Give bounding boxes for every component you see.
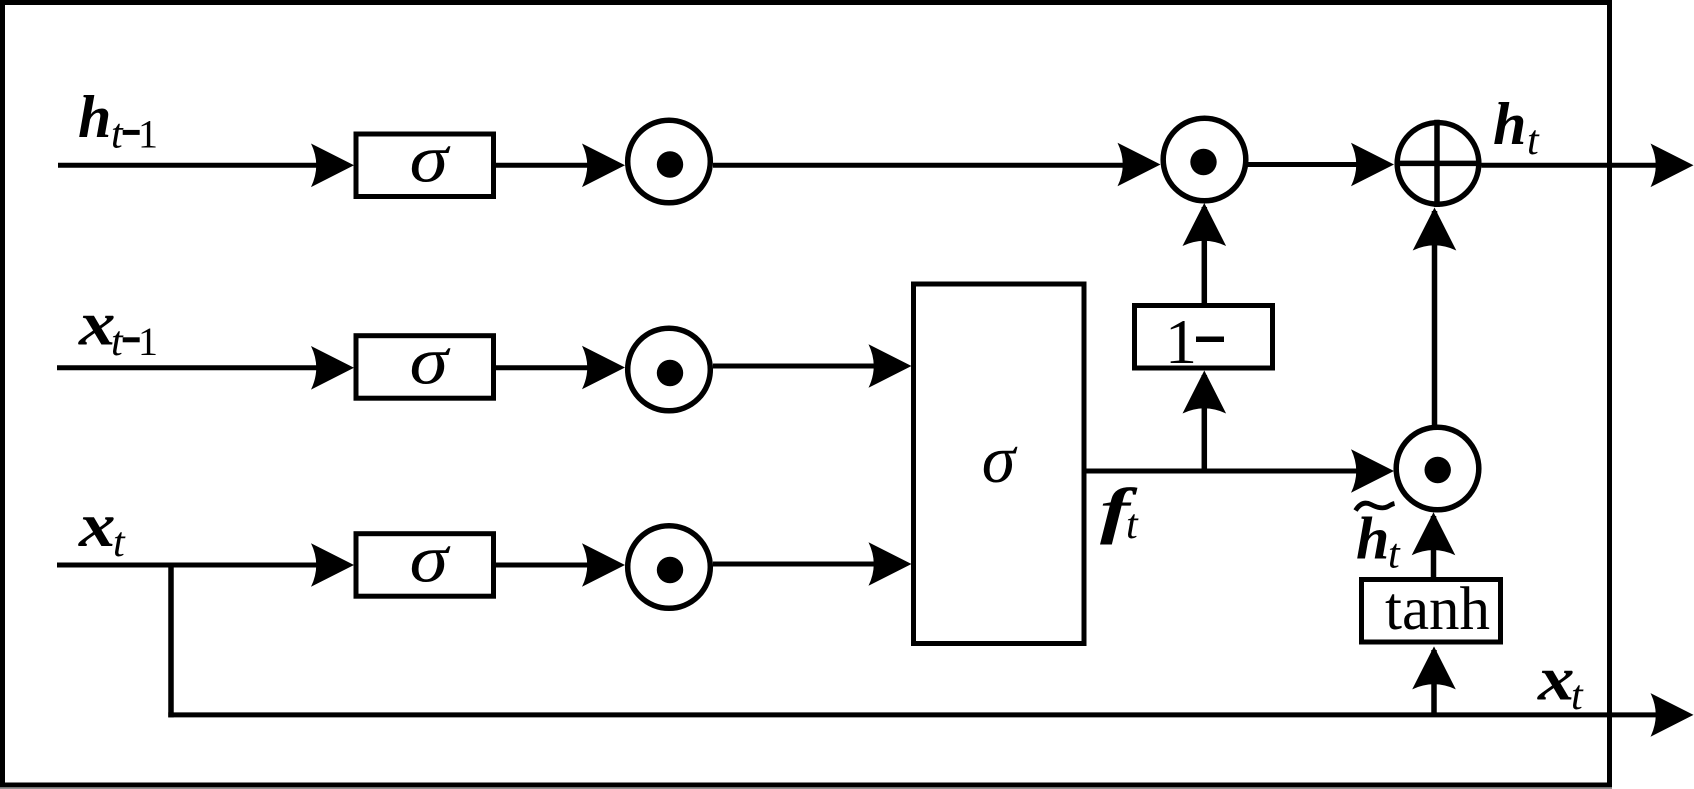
node h_{t-1} label bbox=[78, 84, 158, 158]
wire f_t from U1 to M5 bbox=[1084, 469, 1374, 474]
wire tanh box up to M5 bbox=[1431, 516, 1437, 580]
arrowhead into sigma box S3 bbox=[311, 543, 354, 587]
svg-text:x: x bbox=[78, 492, 116, 560]
svg-text:σ: σ bbox=[410, 323, 451, 399]
arrowhead into 1-minus box bottom bbox=[1183, 371, 1227, 414]
svg-text:t: t bbox=[1388, 532, 1401, 578]
arrowhead into tanh bottom bbox=[1412, 646, 1456, 689]
arrowhead output h_t bbox=[1651, 144, 1694, 188]
wire M1 to M2 bbox=[713, 163, 1140, 168]
multiply node M3 bbox=[628, 328, 711, 411]
wire row2 input bbox=[57, 365, 330, 370]
node x_t label bbox=[78, 492, 126, 566]
arrowhead into add node A1 bbox=[1351, 143, 1394, 187]
gate box S2 sigma bbox=[356, 336, 494, 399]
svg-text:t: t bbox=[1126, 502, 1139, 548]
arrowhead into multiply node M4 bbox=[582, 543, 625, 587]
multiply node M1 bbox=[628, 120, 711, 203]
svg-text:1: 1 bbox=[138, 319, 158, 364]
gate box S3 sigma bbox=[356, 534, 494, 597]
add node A1 circle-plus bbox=[1395, 120, 1482, 207]
wire row3 input bbox=[57, 563, 330, 568]
wire S2 to M3 bbox=[494, 365, 606, 370]
svg-text:x: x bbox=[1537, 645, 1575, 713]
svg-text:t: t bbox=[111, 112, 124, 158]
multiply node M5 bbox=[1396, 427, 1479, 510]
svg-text:t: t bbox=[1527, 118, 1540, 164]
wire A1 to right output bbox=[1482, 163, 1674, 168]
multiply node M2 bbox=[1163, 118, 1246, 201]
arrowhead into big sigma box row2 bbox=[869, 344, 912, 388]
wire M3 to big sigma box bbox=[713, 364, 891, 369]
gate box 1-minus bbox=[1135, 306, 1273, 369]
wire junction up to 1-minus box bbox=[1202, 375, 1208, 471]
svg-text:σ: σ bbox=[982, 421, 1018, 497]
wire 1-minus box up to M2 bbox=[1202, 207, 1208, 303]
node f_t label bbox=[1100, 477, 1139, 548]
gate box tanh bbox=[1362, 580, 1501, 643]
tilde accent bbox=[1356, 503, 1395, 510]
gate box S1 sigma bbox=[356, 134, 494, 197]
svg-text:1: 1 bbox=[1165, 306, 1197, 377]
svg-text:x: x bbox=[78, 291, 116, 359]
arrowhead into M5 bottom bbox=[1412, 512, 1456, 555]
wire bottom x_t up to tanh box bbox=[1431, 650, 1437, 715]
arrowhead into M2 bottom bbox=[1183, 203, 1227, 246]
scan-edge gray strip at page bottom bbox=[0, 788, 1612, 789]
arrowhead into multiply node M1 bbox=[582, 144, 625, 188]
arrowhead into A1 bottom bbox=[1413, 208, 1457, 251]
gate box U1 big sigma bbox=[914, 284, 1085, 644]
node h_t label bbox=[1493, 91, 1540, 164]
node x_t bottom label bbox=[1537, 645, 1584, 719]
arrowhead into sigma box S2 bbox=[311, 346, 354, 390]
arrowhead into sigma box S1 bbox=[311, 144, 354, 188]
svg-text:h: h bbox=[78, 84, 111, 150]
wire S1 to M1 bbox=[494, 163, 606, 168]
svg-text:σ: σ bbox=[410, 521, 451, 597]
svg-text:t: t bbox=[1571, 673, 1584, 719]
svg-text:t: t bbox=[113, 520, 126, 566]
svg-text:t: t bbox=[111, 319, 124, 365]
arrowhead output x_t right bbox=[1651, 693, 1694, 737]
arrowhead into multiply node M3 bbox=[582, 346, 625, 390]
wire row1 input bbox=[58, 163, 330, 168]
wire branch x_t down bbox=[168, 563, 174, 718]
wire M4 to big sigma box bbox=[713, 562, 891, 567]
wire bottom x_t horizontal bbox=[168, 712, 1673, 717]
svg-text:1: 1 bbox=[138, 112, 158, 157]
wire S3 to M4 bbox=[494, 563, 606, 568]
svg-text:tanh: tanh bbox=[1385, 576, 1490, 643]
svg-text:h: h bbox=[1356, 506, 1389, 572]
arrowhead into multiply node M2 bbox=[1118, 143, 1161, 187]
node h_tilde_t label bbox=[1356, 503, 1402, 577]
wire M5 up to A1 bbox=[1432, 211, 1438, 425]
node x_{t-1} label bbox=[78, 291, 158, 366]
multiply node M4 bbox=[628, 526, 711, 609]
arrowhead into big sigma box row3 bbox=[869, 542, 912, 586]
svg-text:σ: σ bbox=[410, 121, 451, 197]
wire M2 to A1 bbox=[1246, 162, 1374, 167]
svg-text:h: h bbox=[1493, 91, 1526, 157]
arrowhead into multiply node M5 bbox=[1351, 449, 1394, 493]
